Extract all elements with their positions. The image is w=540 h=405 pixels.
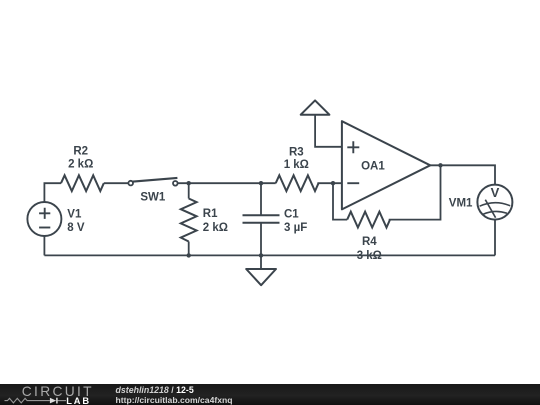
svg-text:OA1: OA1 [361, 161, 385, 173]
wire R1 top lead [188, 183, 190, 198]
ground symbol [246, 269, 276, 285]
svg-text:3 µF: 3 µF [284, 222, 307, 234]
labels [67, 145, 473, 262]
junction output node [438, 163, 442, 167]
wire VM1 bottom lead [494, 220, 496, 256]
junction R1 top node [187, 181, 191, 185]
CircuitLab logo [22, 385, 94, 399]
wire R4 right lead up to output [389, 165, 441, 219]
voltmeter VM1 [477, 185, 512, 220]
svg-text:SW1: SW1 [140, 191, 166, 203]
svg-text:R3: R3 [289, 146, 304, 158]
wire R2 to SW1 [104, 182, 128, 184]
resistor R1 [181, 199, 197, 242]
svg-text:2 kΩ: 2 kΩ [68, 159, 93, 171]
capacitor C1 plates [243, 215, 280, 223]
resistor R3 [276, 175, 319, 191]
svg-text:V1: V1 [67, 208, 82, 220]
svg-text:8 V: 8 V [67, 222, 85, 234]
svg-text:2 kΩ: 2 kΩ [203, 222, 228, 234]
switch SW1 [128, 178, 177, 186]
wire power arrow to plus input [315, 115, 342, 147]
resistor R2 [61, 175, 104, 191]
svg-text:VM1: VM1 [449, 198, 473, 210]
wire C1 bottom lead [260, 223, 262, 256]
junction C1 bottom node [259, 253, 263, 257]
wire bottom net [44, 254, 495, 256]
junction op-amp minus node [331, 181, 335, 185]
wire R3 to op-amp minus input [317, 182, 342, 184]
wire V1 bottom lead [43, 236, 45, 256]
op-amp plus input glyph [347, 141, 359, 153]
wire R1 bottom lead [188, 242, 190, 256]
junction R1 bottom node [187, 253, 191, 257]
wire C1 top lead [260, 183, 262, 215]
svg-text:R4: R4 [362, 236, 377, 248]
footer bar [0, 384, 540, 405]
wire minus node down to R4 [333, 183, 347, 219]
svg-text:V: V [491, 185, 500, 200]
svg-text:C1: C1 [284, 209, 299, 221]
power supply arrow [301, 100, 330, 114]
junction C1 top node [259, 181, 263, 185]
wire op-amp output to VM1 [430, 165, 495, 184]
svg-text:1 kΩ: 1 kΩ [284, 159, 309, 171]
wire ground stub [260, 255, 262, 269]
voltage source V1 [27, 202, 61, 236]
resistor R4 [347, 212, 390, 228]
wire SW1 to op-amp (top net) [178, 182, 276, 184]
wire V1 top lead [44, 183, 61, 202]
op-amp minus input glyph [347, 182, 359, 184]
op-amp OA1 [342, 121, 430, 209]
svg-text:R2: R2 [73, 145, 88, 157]
svg-text:R1: R1 [203, 208, 218, 220]
svg-text:3 kΩ: 3 kΩ [357, 250, 382, 262]
